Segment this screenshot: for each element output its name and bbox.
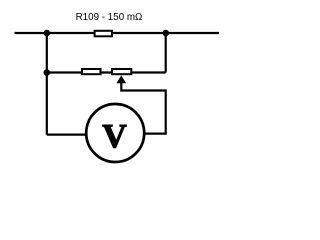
svg-text:V: V	[102, 118, 127, 155]
svg-text:R109 - 150 mΩ: R109 - 150 mΩ	[76, 11, 143, 23]
